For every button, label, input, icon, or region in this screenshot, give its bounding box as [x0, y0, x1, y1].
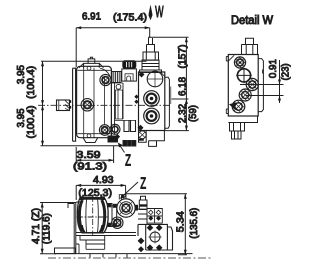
dim 5.34 (135.6): [126, 194, 187, 255]
compensator solenoid cap: [123, 61, 136, 69]
housing inner edge lines: [78, 70, 111, 133]
detail port 5 wedge: [229, 102, 236, 109]
compensator body: [122, 69, 137, 81]
mounting flange: [73, 68, 77, 141]
small diamonds left edge: [134, 95, 138, 104]
relief valve: [140, 38, 162, 73]
bolt pocket arc: [100, 68, 111, 82]
barrel top dark edge: [81, 197, 104, 199]
adapter mid rects: [116, 90, 123, 119]
housing edge bolts: [87, 66, 91, 70]
svg-text:6.18: 6.18: [177, 77, 188, 96]
bolt circle lower B: [110, 124, 120, 134]
plan shaft: [55, 248, 76, 254]
svg-text:(23): (23): [280, 63, 291, 80]
adapter top rects: [112, 72, 121, 83]
barrel corner nubs: [79, 196, 83, 200]
bottom view centerline vertical: [92, 196, 94, 236]
plan port boss circles: [117, 199, 135, 217]
dim 6.18 (157) and 2.32 (59): [148, 37, 189, 130]
svg-text:3.59: 3.59: [77, 150, 102, 161]
svg-text:(135.6): (135.6): [189, 208, 200, 239]
plan block crosshair: [150, 232, 160, 242]
block right plate: [165, 77, 170, 128]
detail corner chamfer: [228, 55, 234, 61]
view arrow W: [149, 6, 153, 20]
dim 3.59 (91.3): [76, 146, 113, 163]
detail right plate: [258, 59, 263, 112]
plan base plate: [76, 233, 136, 254]
svg-text:W: W: [155, 2, 164, 21]
valve block: [139, 72, 165, 131]
shaft key hatch: [59, 100, 69, 111]
svg-text:5.34: 5.34: [175, 211, 186, 232]
housing top boss: [79, 63, 104, 67]
svg-text:(125.3): (125.3): [78, 188, 112, 199]
dim 0.91 (23): [240, 60, 284, 103]
dim 4.71 (Z) (119.6): [40, 203, 76, 254]
centerline shaft axis: [38, 104, 172, 106]
svg-text:(91.3): (91.3): [73, 162, 107, 173]
housing cover lines: [84, 67, 105, 138]
detail bottom fittings: [228, 116, 257, 139]
plan solenoid: [139, 196, 147, 209]
barrel mid centerline: [77, 216, 109, 218]
view arrow Z bottom: [123, 182, 139, 196]
plan port boss nub: [119, 195, 126, 200]
svg-text:6.91: 6.91: [82, 12, 101, 23]
plan connector: [107, 204, 116, 227]
svg-text:(119.6): (119.6): [42, 213, 53, 244]
bolt circle upper: [100, 74, 111, 85]
block corner chamfer: [161, 72, 165, 77]
nut under bolt B: [108, 136, 118, 142]
block bottom pocket: [139, 131, 147, 143]
barrel shade band right: [102, 200, 105, 232]
detail port 5: [232, 100, 245, 113]
svg-text:0.91: 0.91: [268, 59, 279, 78]
barrel bottom dark corners: [80, 225, 86, 233]
diamond marker bottom-left: [138, 125, 144, 131]
pump housing: [77, 66, 112, 137]
dim 6.91 (175.4): [76, 28, 150, 67]
svg-text:Z: Z: [140, 174, 146, 192]
bottom view centerline horizontal: [48, 257, 211, 259]
shaft: [57, 100, 70, 111]
plan valve block: [138, 224, 173, 250]
plan bottom edge: [55, 254, 193, 258]
svg-text:Z: Z: [125, 151, 131, 169]
svg-text:2.32: 2.32: [178, 104, 189, 123]
svg-text:(157): (157): [177, 45, 188, 69]
svg-text:Detail W: Detail W: [231, 15, 273, 27]
pocket bolt circle: [138, 131, 146, 139]
diamond marker top-left: [139, 72, 145, 78]
barrel shade band left: [79, 200, 82, 232]
plan squares: [147, 209, 162, 224]
plan flange: [68, 202, 81, 254]
detail port 4: [239, 89, 251, 101]
boss bolt: [88, 57, 95, 63]
view arrow Z main: [120, 146, 125, 153]
svg-text:4.93: 4.93: [93, 175, 114, 186]
plan bolt circle: [112, 217, 123, 228]
svg-text:(59): (59): [188, 105, 199, 122]
svg-text:(175.4): (175.4): [113, 12, 147, 23]
plan left column: [138, 209, 147, 224]
detail hex plug top: [242, 38, 258, 54]
adapter small circle: [116, 84, 121, 89]
adapter horizontal edges: [111, 83, 136, 121]
dim 3.95 upper / lower (100.4): [41, 61, 147, 146]
hub circle: [81, 99, 93, 111]
port circle mid: [144, 91, 160, 107]
detail block: [228, 55, 258, 117]
plan block diamonds: [147, 224, 154, 231]
detail port 3: [246, 78, 258, 90]
dim 4.93 (125.3): [76, 185, 125, 200]
control channels: [124, 120, 136, 132]
block bottom step: [149, 131, 165, 147]
barrel inner lines: [86, 198, 98, 233]
svg-text:4.71 (Z): 4.71 (Z): [31, 208, 42, 244]
svg-text:(100.4): (100.4): [26, 106, 37, 139]
adapter section: [111, 69, 123, 138]
svg-text:(100.4): (100.4): [26, 66, 37, 99]
detail block left tabs: [226, 57, 228, 114]
mounting feet: [83, 138, 97, 143]
plan barrel: [77, 198, 108, 233]
bolt circle lower A: [99, 125, 110, 136]
dark ports row: [123, 141, 127, 147]
port circle bottom: [144, 108, 160, 124]
detail port 2: [237, 69, 250, 82]
detail port 1: [234, 57, 245, 68]
port circle top: [147, 71, 163, 87]
boss-block interface: [135, 205, 138, 211]
